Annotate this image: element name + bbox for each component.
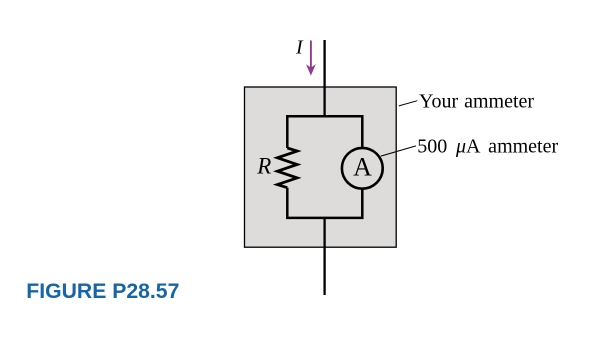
wire: bottom lead out of box bbox=[323, 217, 325, 295]
svg-text:500 μA ammeter: 500 μA ammeter bbox=[417, 135, 558, 157]
ammeter U1 (500 uA meter) bbox=[342, 148, 383, 189]
svg-text:FIGURE P28.57: FIGURE P28.57 bbox=[26, 280, 179, 303]
leader line to 500 uA ammeter bbox=[381, 146, 416, 156]
svg-text:Your ammeter: Your ammeter bbox=[419, 91, 534, 113]
wire: top lead into box bbox=[323, 40, 325, 117]
ammeter box (Your ammeter enclosure) bbox=[245, 87, 397, 247]
svg-text:A: A bbox=[353, 153, 372, 182]
current arrow I bbox=[310, 41, 312, 69]
svg-text:I: I bbox=[295, 37, 304, 59]
leader line to Your ammeter bbox=[399, 101, 417, 106]
resistor R bbox=[277, 148, 297, 188]
svg-text:R: R bbox=[256, 154, 271, 179]
wire: parallel loop (top, right, bottom, left stubs) bbox=[287, 116, 362, 218]
